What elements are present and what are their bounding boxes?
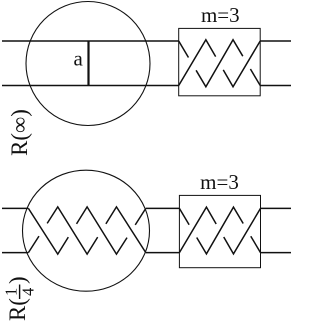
svg-text:R(: R( <box>5 298 30 321</box>
svg-text:m=3: m=3 <box>200 170 239 194</box>
svg-text:a: a <box>74 46 84 70</box>
svg-text:R(∞): R(∞) <box>7 109 32 156</box>
svg-text:1: 1 <box>1 288 20 296</box>
svg-text:): ) <box>5 276 30 284</box>
svg-text:m=3: m=3 <box>201 3 240 27</box>
svg-text:4: 4 <box>19 288 38 296</box>
